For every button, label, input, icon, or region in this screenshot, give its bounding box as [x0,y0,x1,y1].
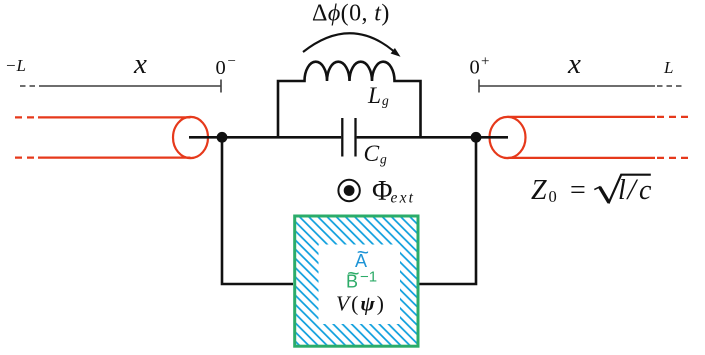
main wire left segment [189,136,341,139]
left axis dashed segment [20,85,40,87]
svg-text:C: C [364,141,380,167]
right coax bottom line [508,157,656,159]
left coax end ellipse [173,117,208,158]
svg-text:Z: Z [531,175,547,206]
main wire right segment [357,136,508,139]
svg-text:0: 0 [216,57,226,79]
capacitor C_g [342,118,355,157]
right axis tick at 0+ [478,80,480,93]
svg-text:g: g [382,93,389,108]
svg-text:x: x [567,48,581,80]
svg-text:~: ~ [347,262,359,285]
svg-text:V(ψ): V(ψ) [336,292,386,316]
junction dot right [471,132,482,143]
inductor branch L_g [278,62,421,138]
left axis tick at 0- [220,80,222,93]
svg-text:L: L [367,83,381,109]
junction dot left [217,132,228,143]
svg-text:l: l [618,175,626,206]
svg-text:−1: −1 [360,269,377,286]
svg-text:g: g [380,152,387,167]
arc arrow for delta-phi [303,33,394,52]
right axis dashed segment [657,85,684,87]
svg-text:c: c [639,175,652,206]
svg-text:0: 0 [549,187,557,206]
svg-text:ext: ext [391,190,416,207]
svg-text:x: x [133,48,147,80]
wire left down to box [222,137,293,284]
box inner white area [319,245,401,325]
left axis line [40,85,221,87]
right coax top line [508,116,656,118]
svg-text:Δϕ(0, t): Δϕ(0, t) [312,1,390,27]
svg-text:L: L [663,58,673,77]
right coax bottom dashes [657,157,688,159]
left coax top line [38,116,191,118]
svg-text:+: + [481,54,489,70]
hatched box outline [295,216,418,346]
svg-text:−: − [228,54,236,70]
svg-text:/: / [626,173,639,206]
wire right down to box [419,137,476,284]
right axis line [479,85,655,87]
flux symbol circle-dot [338,180,359,201]
left coax top dashes [15,116,38,118]
left coax bottom line [38,157,191,159]
sqrt radical [594,186,600,189]
svg-text:Φ: Φ [372,176,392,207]
left coax bottom dashes [15,157,38,159]
svg-text:−L: −L [5,56,26,75]
svg-text:~: ~ [357,241,369,264]
svg-text:=: = [570,175,586,206]
svg-text:0: 0 [470,57,480,79]
right coax top dashes [657,116,688,118]
right coax end ellipse [490,117,526,158]
